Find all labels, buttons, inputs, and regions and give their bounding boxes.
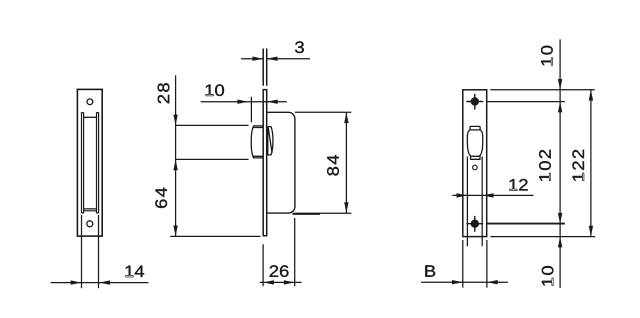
top screw extension line xyxy=(487,101,565,103)
dim 10 middle label xyxy=(206,84,224,96)
dim 102 label xyxy=(539,150,551,181)
left view case bottom crossbar xyxy=(84,209,97,211)
left view bottom screw hole xyxy=(87,221,93,227)
middle latch bolt right head xyxy=(268,127,273,156)
middle lock case outline xyxy=(267,112,295,213)
chain arrow down at plate top xyxy=(558,79,562,90)
dim 3 arrow right xyxy=(267,57,278,61)
dim 10 middle arrow left xyxy=(237,100,248,104)
plate top extension line xyxy=(490,89,595,91)
dim 10 top label xyxy=(541,46,553,66)
right view top screw xyxy=(466,94,483,110)
middle faceplate top piece xyxy=(263,49,267,86)
dim 122 label xyxy=(572,150,584,181)
dim B arrow left xyxy=(452,280,463,284)
right view bottom screw xyxy=(466,216,483,232)
dim 64 label xyxy=(155,188,167,208)
left view case left rail xyxy=(81,112,84,213)
latch top extension line xyxy=(176,124,249,126)
dim 122 arrow up xyxy=(589,90,593,101)
dim 10 bottom label xyxy=(542,266,554,286)
dim 28 arrow down xyxy=(173,115,177,126)
right view latch pin hole xyxy=(473,165,478,170)
dim 64 arrow down xyxy=(173,226,177,237)
left view top screw hole xyxy=(87,99,93,105)
dim B extension lines xyxy=(463,240,487,288)
dim 14 label xyxy=(126,266,145,277)
middle latch bolt left lens xyxy=(251,126,263,158)
dim B dimension line xyxy=(421,281,508,283)
dim 84 label xyxy=(327,155,339,176)
dim 3 dimension line xyxy=(241,58,310,60)
case top extension line xyxy=(295,111,351,113)
dim 12 dimension line xyxy=(452,194,533,196)
right view latch bottom inset xyxy=(471,156,480,160)
right view latch cap xyxy=(470,126,480,130)
chain arrow up at top screw line xyxy=(558,102,562,113)
dim 28 label xyxy=(158,83,170,103)
dim 122 dimension line xyxy=(590,90,592,237)
dim 84 arrow down xyxy=(344,202,348,213)
dim B label xyxy=(425,265,435,276)
dim 26 arrow left xyxy=(263,280,274,284)
middle faceplate main body xyxy=(263,89,268,236)
dim 64 arrow up xyxy=(173,159,177,170)
chain arrow up at plate bottom xyxy=(558,237,562,248)
dim 26 extension lines xyxy=(263,218,295,286)
chain dimension line 10-102-10 xyxy=(559,39,561,288)
left view case right rail xyxy=(96,112,99,213)
dim 26 arrow right xyxy=(284,280,295,284)
dim B arrow right xyxy=(487,280,498,284)
dim 12 extension lines xyxy=(467,157,482,247)
dim 84 arrow up xyxy=(344,112,348,123)
dim 3 arrow left xyxy=(252,57,263,61)
latch bottom extension line xyxy=(176,158,249,160)
dim 12 arrow left xyxy=(457,193,468,197)
dim 28-64 shared dimension line xyxy=(175,75,177,236)
dim 14 arrow right xyxy=(99,280,110,284)
right view latch barrel xyxy=(467,130,482,156)
right view faceplate outline xyxy=(463,90,487,237)
plate bottom extension line xyxy=(490,236,595,238)
dim 3 label xyxy=(295,41,304,53)
dim 14 arrow left xyxy=(71,280,82,284)
dim 122 arrow down xyxy=(589,226,593,237)
dim 14 extension lines xyxy=(82,215,99,288)
dim 26 label xyxy=(270,265,289,277)
chain arrow down at bottom screw line xyxy=(558,213,562,224)
dim 10 middle arrow right xyxy=(267,100,278,104)
dim 10 middle dimension line xyxy=(201,101,287,103)
bottom screw extension line xyxy=(486,223,565,225)
faceplate bottom extension line xyxy=(170,235,260,237)
dim 84 dimension line xyxy=(345,112,347,213)
case bottom extension line xyxy=(293,213,352,214)
dim 14 dimension line xyxy=(51,282,149,284)
dim 12 label xyxy=(509,179,527,191)
dim 26 dimension line xyxy=(260,281,302,283)
dim 12 arrow right xyxy=(483,193,494,197)
left view faceplate outline xyxy=(77,89,102,236)
left view case top crossbar xyxy=(84,116,97,118)
dim 10 middle extension line xyxy=(250,97,252,123)
